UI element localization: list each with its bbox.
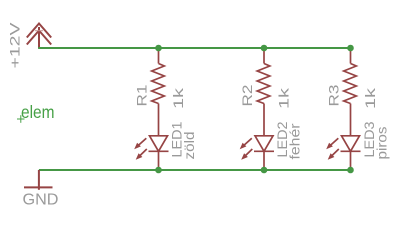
node junction J1 — [155, 45, 162, 52]
svg-text:1k: 1k — [170, 87, 186, 109]
svg-text:zöld: zöld — [181, 132, 197, 160]
svg-text:R2: R2 — [239, 84, 255, 106]
resistor R2 — [257, 48, 270, 136]
resistor R1 — [152, 48, 165, 136]
arrowheads LED1 — [134, 143, 142, 160]
node junction J3 — [347, 45, 354, 52]
node junction J6 — [347, 167, 354, 174]
svg-text:+12V: +12V — [7, 22, 23, 69]
svg-text:fehér: fehér — [287, 123, 303, 159]
resistor R3 — [344, 48, 357, 136]
supply +12V — [27, 24, 51, 49]
origin cross of elem — [17, 115, 25, 123]
svg-text:piros: piros — [374, 127, 390, 160]
wire top rail — [38, 47, 350, 49]
LED LED1 — [137, 136, 169, 171]
LED LED2 — [242, 136, 274, 171]
node junction J4 — [155, 167, 162, 174]
LED LED3 — [329, 136, 361, 171]
svg-text:R1: R1 — [134, 84, 150, 106]
svg-text:GND: GND — [23, 192, 59, 209]
arrowheads LED2 — [240, 143, 248, 160]
pin cross of +12V — [35, 30, 43, 32]
svg-text:elem: elem — [21, 102, 55, 122]
ground GND — [24, 170, 53, 190]
wire bottom rail — [39, 169, 351, 171]
node junction J5 — [261, 167, 268, 174]
svg-text:1k: 1k — [276, 87, 292, 109]
svg-text:R3: R3 — [326, 84, 342, 106]
node junction J2 — [261, 45, 268, 52]
arrowheads LED3 — [326, 143, 334, 160]
svg-text:1k: 1k — [362, 87, 378, 109]
